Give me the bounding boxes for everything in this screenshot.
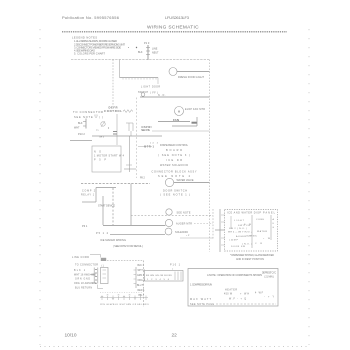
- svg-text:COMP 2: COMP 2: [82, 191, 96, 193]
- svg-text:WIRING SCHEMATIC: WIRING SCHEMATIC: [147, 25, 199, 31]
- capacitor leg: [116, 114, 118, 145]
- door switch symbol: [141, 93, 145, 97]
- svg-text:RELAY 1: RELAY 1: [81, 194, 95, 197]
- wire: [110, 233, 165, 235]
- svg-text:22: 22: [172, 333, 178, 339]
- svg-text:DEFROST CYC: DEFROST CYC: [262, 273, 276, 275]
- wire: [174, 182, 210, 184]
- svg-text:* DISPENSER SHOWN, GLASS REMOV: * DISPENSER SHOWN, GLASS REMOVED: [230, 254, 274, 257]
- svg-text:BLK: BLK: [138, 51, 143, 54]
- svg-text:FRESH FOOD LIGHT: FRESH FOOD LIGHT: [178, 75, 204, 79]
- svg-text:WHT: WHT: [74, 127, 80, 130]
- wire: [177, 71, 210, 73]
- svg-text:SEE NOTE: SEE NOTE: [177, 212, 191, 215]
- wire left bus: [112, 60, 114, 107]
- svg-text:- + Y: - + Y: [264, 297, 274, 299]
- wire dashed: [131, 214, 213, 216]
- svg-text:SEE NOTE: SEE NOTE: [141, 129, 150, 132]
- svg-text:WH 4 + JM Y H2O +: WH 4 + JM Y H2O +: [228, 232, 253, 234]
- wire: [119, 60, 121, 78]
- harness wire labels: [74, 270, 96, 290]
- terminal block connector J1: [93, 268, 95, 284]
- svg-text:NO: NO: [94, 151, 101, 154]
- svg-text:LAMP: LAMP: [229, 239, 239, 242]
- svg-text:U: U: [273, 223, 275, 225]
- svg-text:BLU 5: BLU 5: [137, 285, 144, 287]
- svg-text:SW 2 ( N.O. ): SW 2 ( N.O. ): [229, 228, 247, 230]
- defrost heater zigzag: [123, 110, 133, 113]
- svg-text:ICE DR: ICE DR: [166, 159, 182, 162]
- wire labels: [137, 265, 145, 297]
- svg-text:PANEL: PANEL: [263, 212, 276, 215]
- svg-text:N.O.: N.O.: [158, 95, 166, 97]
- svg-text:HEATER: HEATER: [225, 289, 237, 292]
- svg-text:( FF ): ( FF ): [150, 93, 158, 95]
- svg-text:LIGHT: LIGHT: [234, 220, 245, 222]
- svg-text:4 WF: 4 WF: [255, 293, 264, 295]
- svg-text:M: M: [178, 110, 181, 114]
- svg-text:1. ALL WIRING SHOWN, DOORS CLO: 1. ALL WIRING SHOWN, DOORS CLOSED: [74, 39, 117, 43]
- wire verticals to bus: [102, 196, 104, 225]
- title rule: [62, 31, 287, 33]
- note box: [188, 269, 278, 307]
- water valve motor M2: [165, 178, 173, 186]
- lamp L1: [169, 68, 177, 76]
- fold mark left: [39, 29, 41, 345]
- dashed wire: [107, 260, 144, 262]
- wire: [196, 117, 198, 126]
- svg-text:SEE NOTE 4 ( ): SEE NOTE 4 ( ): [74, 116, 103, 119]
- svg-text:LFUS2613LF3: LFUS2613LF3: [165, 15, 190, 20]
- notes legend block: [72, 36, 125, 56]
- mating connector: [101, 268, 109, 284]
- svg-text:RED 6: RED 6: [138, 290, 145, 292]
- compressor label block: [81, 191, 96, 197]
- wire: [124, 168, 136, 170]
- svg-text:+ P: + P: [186, 235, 190, 237]
- svg-text:BLU RETURN: BLU RETURN: [75, 288, 92, 290]
- svg-text:LINE CORD: LINE CORD: [72, 256, 89, 259]
- svg-text:DOOR: DOOR: [152, 87, 160, 89]
- wire top bus: [71, 59, 209, 61]
- wire: [92, 135, 162, 137]
- svg-text:CONNECTOR BLOCK ASSY: CONNECTOR BLOCK ASSY: [152, 171, 197, 174]
- svg-text:W.F - + Q: W.F - + Q: [229, 299, 246, 301]
- svg-text:P13 2: P13 2: [78, 132, 85, 136]
- evap fan motor M1: [175, 107, 184, 116]
- svg-text:BLK: BLK: [113, 304, 119, 306]
- svg-text:LEGEND NOTES: LEGEND NOTES: [72, 36, 97, 40]
- wire terminal rail: [120, 77, 159, 79]
- long dashed wire: [81, 183, 150, 185]
- svg-text:J4 2: J4 2: [150, 143, 159, 145]
- svg-text:CUBE: CUBE: [256, 219, 265, 221]
- bottom trim dotted line: [40, 346, 308, 348]
- connector blob: [192, 122, 198, 124]
- svg-text:GRN: GRN: [126, 304, 132, 306]
- svg-text:SEE NOTE PAGE: SEE NOTE PAGE: [190, 303, 214, 306]
- svg-text:( SEE NOTE 3 ): ( SEE NOTE 3 ): [158, 154, 190, 157]
- svg-text:P10 1: P10 1: [170, 264, 181, 267]
- terminal labels: [100, 304, 150, 306]
- svg-text:NEUT: NEUT: [152, 52, 159, 55]
- svg-text:TO CONNECTOR: TO CONNECTOR: [75, 263, 98, 266]
- svg-text:SOLENOID: SOLENOID: [175, 231, 188, 234]
- svg-text:Publication No. 5995576556: Publication No. 5995576556: [62, 15, 120, 20]
- relay contact symbol: [126, 122, 133, 124]
- svg-text:WATER VALVE: WATER VALVE: [177, 179, 194, 182]
- svg-text:10/10: 10/10: [65, 333, 77, 339]
- terminal strip: [100, 297, 148, 299]
- svg-text:GRN GND: GRN GND: [75, 279, 90, 281]
- arrow stubs: [90, 273, 94, 275]
- svg-text:115V: 115V: [100, 304, 106, 306]
- svg-text:+ W: + W: [263, 238, 271, 240]
- svg-text:CONTROL: CONTROL: [104, 109, 122, 113]
- dotted wire: [100, 292, 143, 294]
- wire mid horizontal: [140, 96, 210, 98]
- svg-text:A: A: [273, 218, 275, 221]
- svg-text:+ WH: + WH: [240, 294, 249, 296]
- svg-text:P1 3: P1 3: [144, 41, 150, 45]
- svg-text:P8 2: P8 2: [140, 178, 145, 180]
- dispenser relay R1: [166, 209, 172, 215]
- svg-text:LINE: LINE: [152, 48, 158, 51]
- connector P1: [128, 41, 159, 60]
- fold mark right: [308, 29, 310, 345]
- wire corner: [212, 209, 214, 240]
- svg-text:WATER: WATER: [257, 230, 267, 233]
- svg-text:G: G: [273, 227, 275, 229]
- bracket: [97, 285, 99, 289]
- auger motor M3: [165, 219, 172, 226]
- svg-text:( 2 ): ( 2 ): [94, 115, 98, 117]
- svg-text:DOOR SWITCH: DOOR SWITCH: [163, 190, 187, 193]
- svg-text:CUBE SOL: CUBE SOL: [246, 236, 258, 238]
- svg-text:CR: CR: [255, 243, 262, 245]
- svg-text:ORG: ORG: [133, 304, 139, 306]
- ice solenoid M4: [165, 228, 172, 235]
- svg-text:WHT 2: WHT 2: [138, 270, 146, 272]
- svg-text:EVAP FAN MTR: EVAP FAN MTR: [185, 108, 205, 111]
- svg-text:ICE AND WATER DISP: ICE AND WATER DISP: [227, 212, 261, 215]
- svg-text:RD: RD: [145, 304, 150, 306]
- wire: [129, 136, 131, 172]
- wire dark dashed left: [70, 139, 92, 141]
- svg-text:AND IN REST POSITION: AND IN REST POSITION: [236, 258, 264, 261]
- svg-text:ICE MAKER WIRING: ICE MAKER WIRING: [100, 238, 126, 242]
- center text stack: [152, 144, 197, 178]
- svg-text:LIGHT: LIGHT: [141, 87, 151, 89]
- svg-text:WHT 16 AWG NEU: WHT 16 AWG NEU: [74, 274, 96, 277]
- bus wire: [103, 225, 165, 227]
- svg-text:YEL 7: YEL 7: [138, 295, 145, 297]
- svg-text:5. COLORS PER CHART: 5. COLORS PER CHART: [74, 52, 105, 56]
- svg-text:BK WH GN OR BU RD: BK WH GN OR BU RD: [146, 275, 172, 277]
- svg-text:SEE NOTE 2: SEE NOTE 2: [158, 175, 191, 178]
- svg-text:A NOTE : OPERATION OF COMPONE: A NOTE : OPERATION OF COMPONENTS SHOWN: [207, 274, 262, 277]
- defrost thermostat: [101, 122, 105, 126]
- svg-text:( SEE NOTE 5 FOR DETAIL ): ( SEE NOTE 5 FOR DETAIL ): [113, 245, 143, 248]
- wire right bus: [209, 60, 211, 253]
- svg-text:450 W: 450 W: [224, 294, 233, 296]
- relay box: [92, 146, 121, 172]
- svg-text:AUGER MTR: AUGER MTR: [176, 223, 192, 226]
- wire dashed vertical: [136, 98, 138, 179]
- svg-text:DOOR SW: DOOR SW: [231, 246, 246, 248]
- svg-text:TO CONNECTOR: TO CONNECTOR: [73, 110, 103, 114]
- svg-text:DISPENSER CONTROL: DISPENSER CONTROL: [160, 144, 189, 147]
- overload symbol: [126, 164, 132, 166]
- svg-text:( 21 MIN ): ( 21 MIN ): [264, 277, 274, 279]
- svg-text:GR 3: GR 3: [99, 137, 105, 139]
- svg-text:1 MOTOR START W 4: 1 MOTOR START W 4: [94, 155, 125, 158]
- svg-text:SW: SW: [244, 224, 252, 226]
- svg-text:P5 1 2: P5 1 2: [96, 232, 109, 235]
- svg-text:P 5 P: P 5 P: [94, 159, 106, 162]
- compressor wires: [96, 187, 116, 189]
- svg-text:T1: T1: [96, 130, 99, 132]
- svg-text:BOARD: BOARD: [166, 149, 182, 152]
- svg-text:BLK: BLK: [78, 122, 83, 125]
- svg-text:ORG 18 AWG SIG: ORG 18 AWG SIG: [74, 282, 96, 285]
- wire: [158, 121, 190, 123]
- wire stub: [157, 78, 159, 85]
- svg-text:WATER SOLENOID: WATER SOLENOID: [160, 164, 188, 167]
- svg-text:AUGER: AUGER: [236, 235, 246, 238]
- wire: [172, 125, 197, 127]
- svg-text:1. COMPRESSOR RUN: 1. COMPRESSOR RUN: [190, 284, 212, 287]
- dispenser feed wire: [219, 209, 221, 252]
- wire: [152, 130, 210, 132]
- svg-text:P3 1: P3 1: [82, 224, 88, 228]
- dashed drop wire: [143, 261, 145, 308]
- svg-text:MAX WATT: MAX WATT: [190, 298, 212, 301]
- connector plug dark: [101, 258, 106, 261]
- dispenser box: [225, 210, 278, 252]
- svg-text:BLK 1: BLK 1: [74, 270, 86, 272]
- svg-text:ORG 4: ORG 4: [138, 280, 146, 282]
- svg-text:( SEE NOTE 1 ): ( SEE NOTE 1 ): [160, 194, 190, 197]
- svg-text:1 2 3 4 5 6: 1 2 3 4 5 6: [147, 279, 170, 281]
- connector bracket: [85, 119, 87, 129]
- right label cluster: [135, 267, 137, 288]
